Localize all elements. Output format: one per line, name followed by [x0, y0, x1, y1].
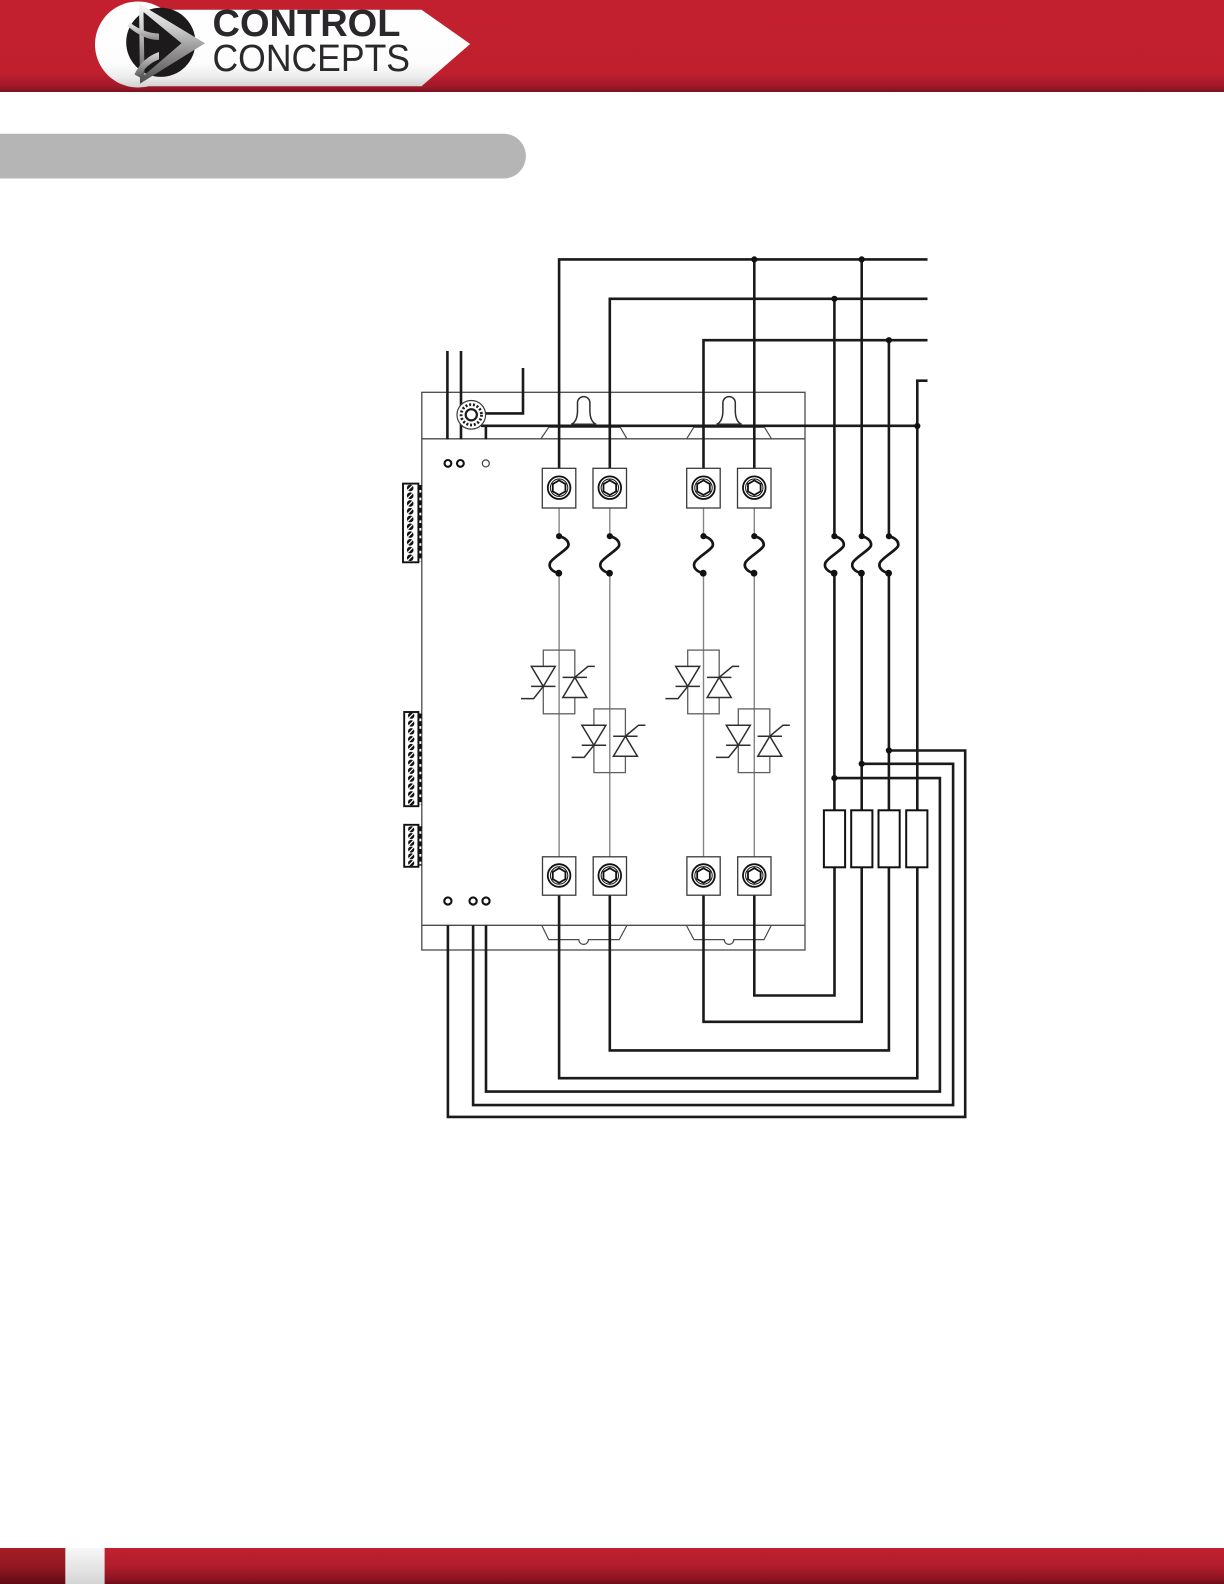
control wire stub B — [460, 351, 463, 439]
junction node J7 — [859, 761, 865, 767]
control wire stub A — [446, 351, 449, 439]
load resistor R4 — [906, 810, 927, 867]
leg 1 internal connection wires — [558, 500, 560, 865]
disconnect switch S5 — [825, 533, 844, 577]
logo mark: black circle — [126, 8, 195, 77]
control terminal circle bottom 3 — [482, 897, 489, 904]
fuse terminal F3 — [687, 468, 721, 508]
heatsink bottom foot 1 with keyhole notch — [542, 926, 627, 944]
junction node J5 — [914, 423, 920, 429]
disconnect switch S2 — [600, 533, 619, 577]
mounting keyhole 2 — [717, 397, 742, 425]
heatsink top foot 1 — [541, 427, 627, 438]
junction node J3 — [831, 296, 837, 302]
disconnect switch S1 — [550, 533, 569, 577]
disconnect switch S3 — [694, 533, 713, 577]
sense wire from CB2 to control terminal 2 — [473, 764, 953, 1105]
SCR controller chassis outline — [422, 392, 805, 950]
logo pennant (white arrow banner) — [95, 2, 470, 88]
sense wire from CB3 to control terminal 1 — [448, 751, 965, 1117]
output stud T4 — [738, 857, 771, 895]
output stud T2 — [593, 857, 626, 895]
load resistor R2 — [851, 810, 872, 867]
disconnect switch S7 — [879, 533, 898, 577]
wire drop L1 to breaker CB2 — [860, 259, 863, 536]
output wire stud T2 to load R3 — [610, 867, 889, 1050]
SCR module U1 — [521, 650, 595, 714]
control terminal circle top 1 — [445, 460, 452, 467]
breaker CB1 output to load R1 — [833, 573, 836, 810]
breaker CB2 output to load R2 — [860, 573, 863, 810]
logo mark: lower gray swoosh — [135, 52, 160, 78]
footer light gap — [65, 1548, 104, 1584]
wire drop L1 to fuse 4 — [753, 259, 756, 470]
terminal block TB3 — [404, 825, 420, 867]
ground lug — [457, 401, 486, 430]
junction node J4 — [886, 337, 892, 343]
output stud T3 — [687, 857, 720, 895]
svg-text:CONCEPTS: CONCEPTS — [213, 37, 411, 80]
SCR module U2 — [572, 709, 646, 773]
wire line L3 — [704, 340, 928, 470]
wire line L2 — [610, 299, 928, 471]
mounting keyhole 1 — [571, 397, 596, 425]
leg 3 internal connection wires — [703, 500, 705, 865]
control terminal circle bottom 1 — [444, 897, 451, 904]
load resistor R3 — [879, 810, 900, 867]
logo mark: upper gray swoosh — [128, 23, 160, 41]
fuse terminal F2 — [593, 468, 627, 508]
junction node J2 — [859, 256, 865, 262]
control terminal circle bottom 2 — [470, 897, 477, 904]
disconnect switch S4 — [745, 533, 764, 577]
output wire stud T3 to load R2 — [704, 867, 862, 1022]
heatsink top foot 2 — [687, 427, 772, 438]
control terminal circle top 2 — [457, 460, 464, 467]
ground wire from lug across chassis to neutral — [481, 424, 917, 427]
wire line L1 — [559, 259, 927, 470]
wire drop L2 to breaker CB1 — [833, 299, 836, 536]
junction node J8 — [886, 747, 892, 753]
SCR module U3 — [665, 650, 739, 714]
sense wire from CB1 to control terminal 3 — [486, 778, 940, 1092]
footer red band — [105, 1548, 1224, 1584]
footer dark red square — [0, 1548, 65, 1584]
wire drop L3 to breaker CB3 — [888, 340, 891, 536]
control terminal circle top 3 — [482, 460, 489, 467]
fuse terminal F4 — [738, 468, 772, 508]
SCR module U4 — [716, 709, 790, 773]
output wire stud T1 to load R4 — [559, 867, 917, 1078]
breaker CB3 output to load R3 — [888, 573, 891, 810]
output stud T1 — [543, 857, 576, 895]
wire neutral line — [917, 381, 927, 811]
heatsink bottom foot 2 with keyhole notch — [687, 926, 771, 944]
junction node J1 — [751, 256, 757, 262]
gray title bar — [0, 134, 526, 179]
chassis top band line — [422, 438, 805, 440]
disconnect switch S6 — [852, 533, 871, 577]
leg 4 internal connection wires — [753, 500, 755, 865]
terminal block TB1 — [403, 484, 420, 563]
header red banner — [0, 0, 1224, 92]
terminal block TB2 — [404, 712, 420, 806]
logo mark: metallic triangle outline with hole — [139, 4, 205, 84]
chassis bottom band line — [422, 924, 805, 926]
output wire stud T4 to load R1 — [754, 867, 834, 995]
junction node J6 — [831, 775, 837, 781]
load resistor R1 — [824, 810, 845, 867]
ground pigtail wire from lug up — [485, 368, 524, 413]
leg 2 internal connection wires — [609, 500, 611, 865]
ground wire stub down to band — [485, 426, 488, 440]
fuse terminal F1 — [542, 468, 576, 508]
